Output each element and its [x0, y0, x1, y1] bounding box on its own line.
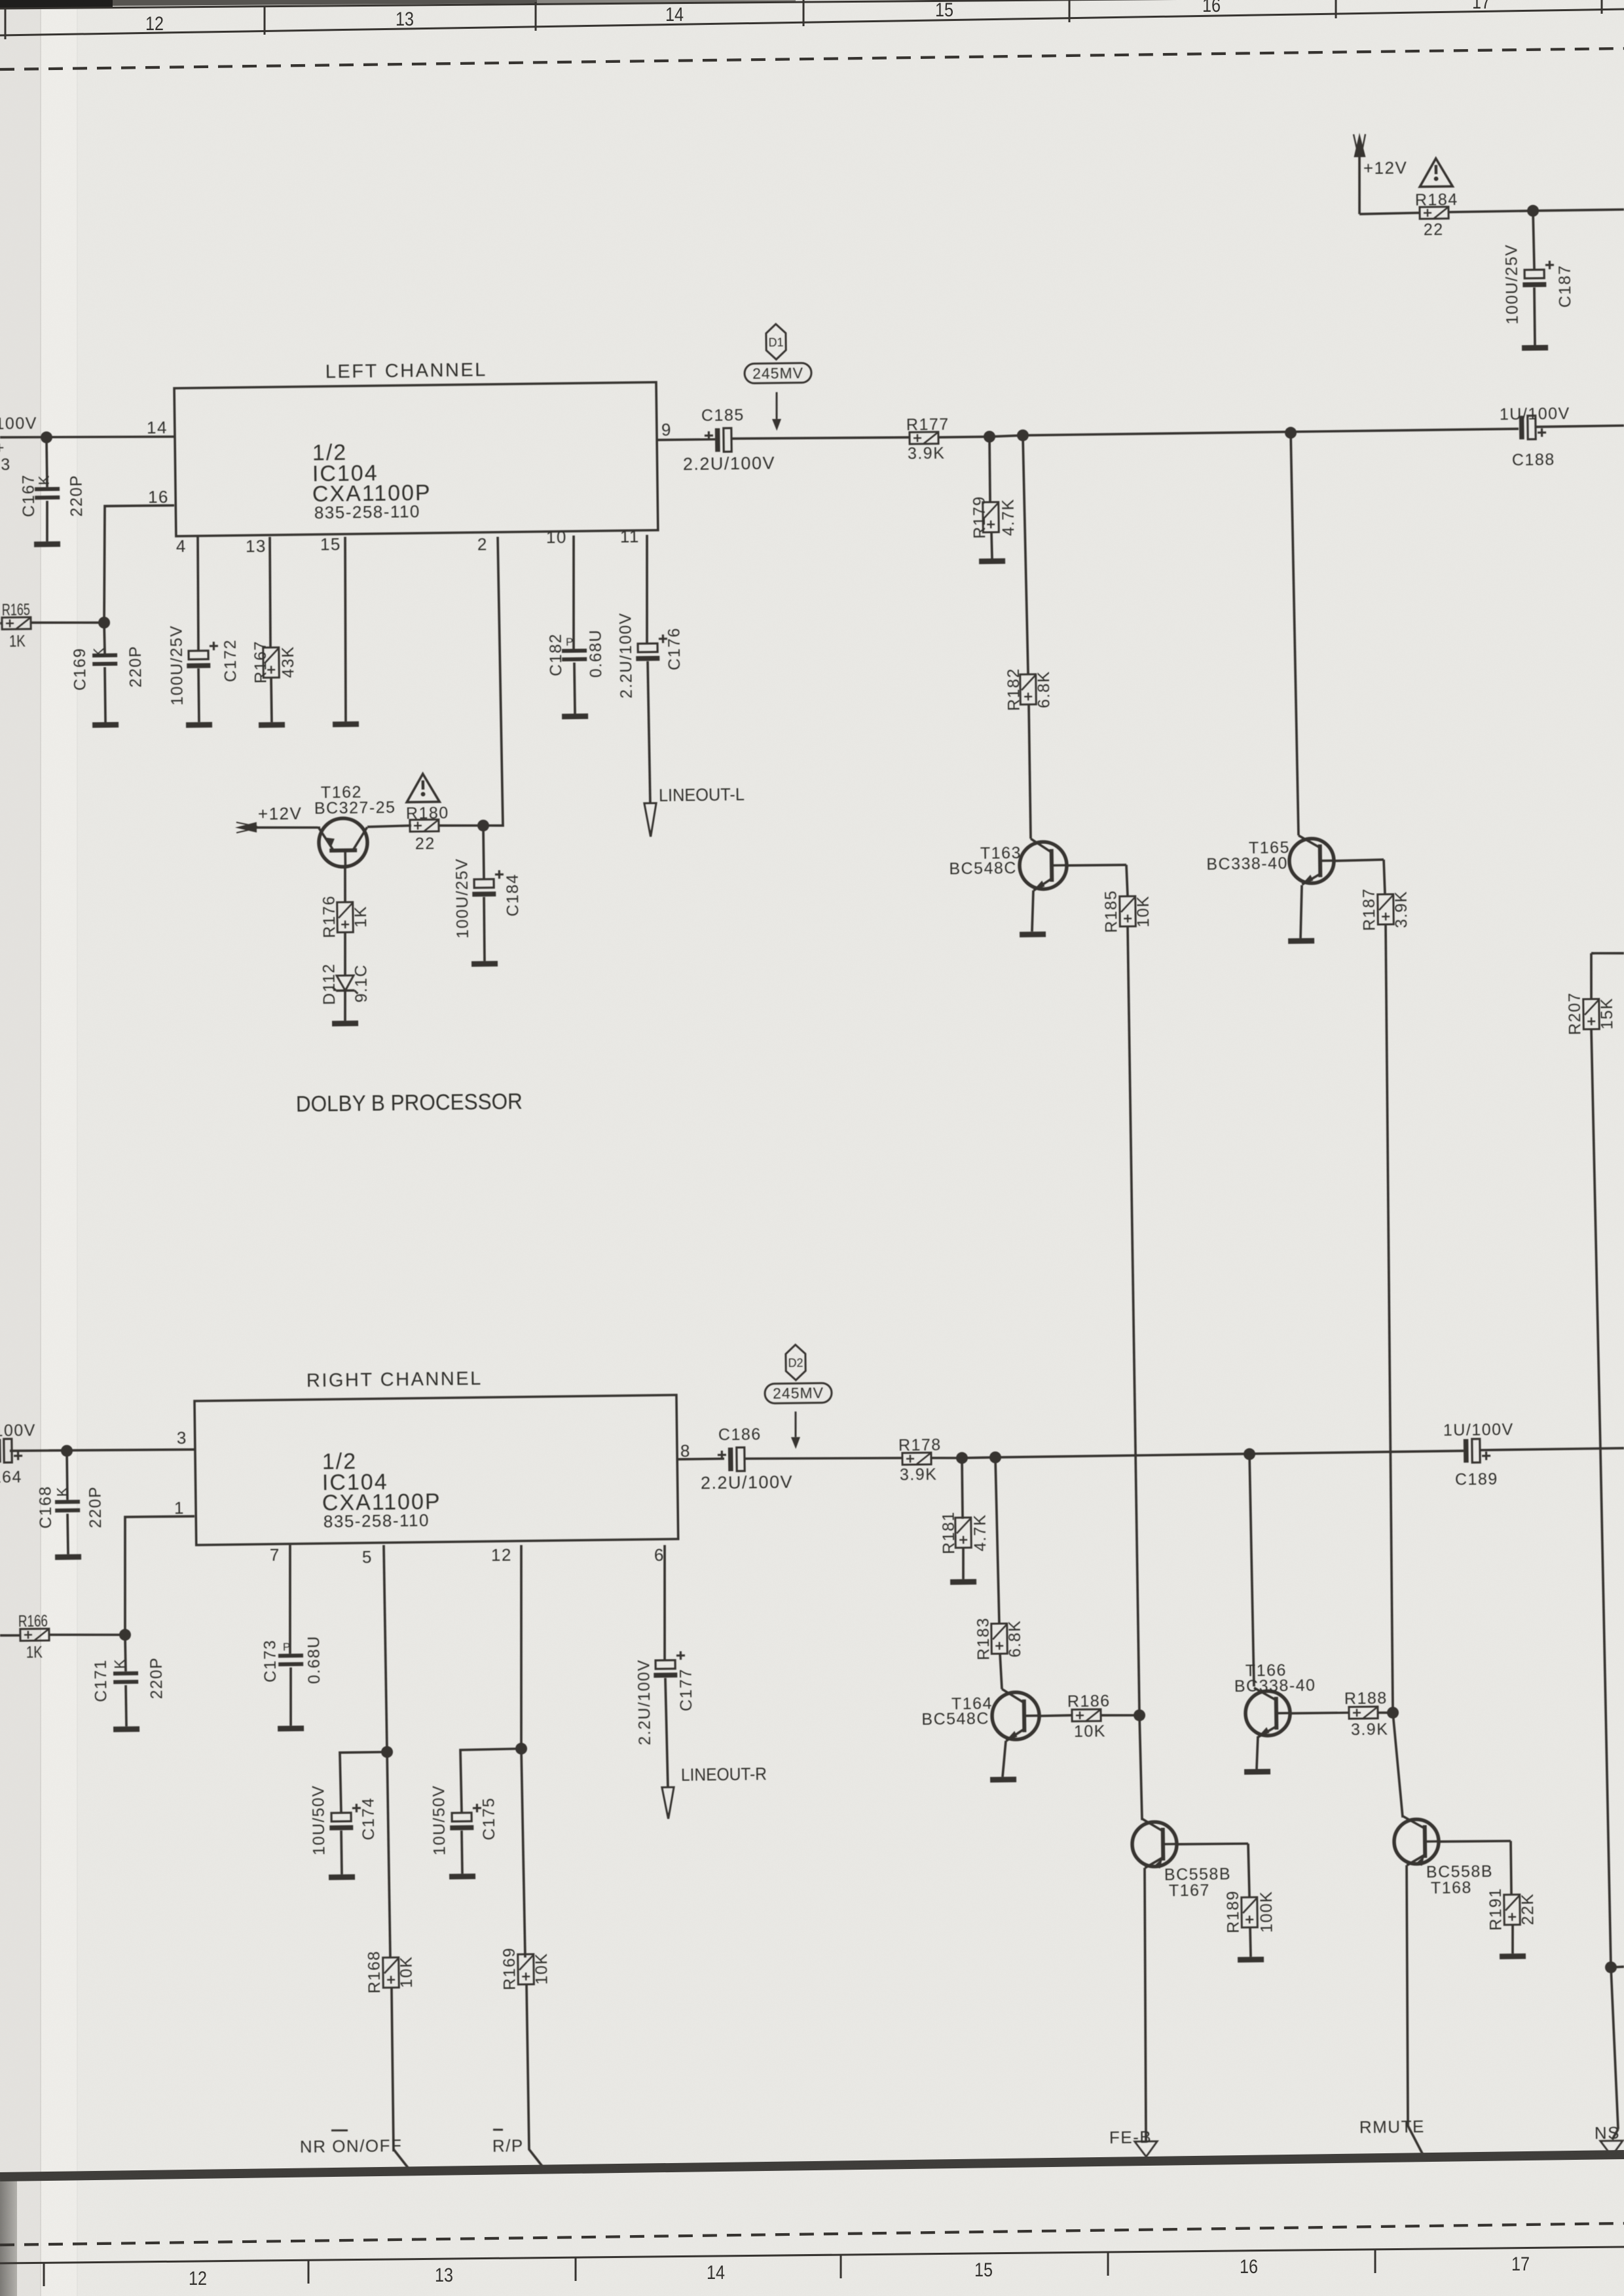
capacitor C182 0.68U — [562, 649, 587, 661]
page top dark scan edge — [0, 0, 537, 7]
net RMUTE — [1359, 2117, 1425, 2137]
resistor R185 10K — [1120, 896, 1136, 926]
ground R191 — [1500, 1954, 1526, 1959]
node T165 tap — [1285, 427, 1297, 439]
ground C175 — [449, 1874, 475, 1880]
label T166 — [1246, 1661, 1287, 1680]
label R182 6.8K — [1035, 670, 1054, 708]
wire C176 to lineout arrow — [648, 661, 650, 803]
top ruler tick — [5, 9, 7, 39]
ground C187 — [1522, 345, 1548, 351]
ground bus bar — [0, 2155, 1624, 2177]
pin 1 — [174, 1498, 185, 1518]
label R180 — [406, 804, 449, 823]
label R167 43K — [279, 646, 298, 678]
bottom ruler line — [0, 2247, 1624, 2263]
capacitor C167 220P — [35, 487, 60, 500]
wire C187 to ground — [1534, 287, 1535, 345]
wire D112 to ground — [344, 991, 345, 1021]
ground pin15 — [333, 721, 359, 727]
ground C182 — [562, 714, 588, 720]
label C187 100U/25V — [1502, 244, 1522, 325]
label R207 — [1566, 992, 1585, 1035]
wire R185 down FE-B line — [1128, 926, 1139, 1714]
wire C182 to ground — [574, 663, 575, 714]
top ruler tick — [1335, 0, 1337, 18]
wire pin1 to node — [124, 1516, 196, 1635]
pin 16 — [148, 487, 169, 507]
label T166 BC338-40 — [1234, 1676, 1316, 1696]
resistor R165 1K — [2, 617, 31, 630]
capacitor C186 2.2U/100V — [718, 1448, 745, 1472]
wire R165 to node — [31, 622, 104, 624]
bottom ruler tick — [1375, 2250, 1376, 2273]
wire pin11 to C176 — [646, 535, 648, 644]
wire C169 bottom lead — [105, 667, 105, 722]
label C177 2.2U/100V — [635, 1659, 654, 1745]
node NS stub — [1605, 1961, 1617, 1973]
wire node to R181 — [962, 1458, 963, 1519]
wire R176 to D112 — [344, 932, 346, 975]
node R183 tap — [989, 1451, 1001, 1463]
label R187 — [1360, 888, 1379, 931]
wire pin2 down to R180 node — [479, 537, 503, 826]
ground C168 — [55, 1554, 81, 1560]
resistor R189 100K — [1242, 1897, 1258, 1927]
node R166/C171 — [119, 1629, 131, 1641]
wire T166 base lead to R188 — [1290, 1713, 1349, 1713]
label T163 BC548C — [949, 859, 1017, 878]
label R180 22 — [415, 835, 435, 853]
pin 3 — [177, 1428, 187, 1448]
wire node down to T165 — [1291, 433, 1299, 835]
net LINEOUT-R — [681, 1764, 767, 1785]
wire C186 to R178 — [745, 1457, 903, 1460]
label R165 — [2, 600, 30, 619]
label C174 10U/50V — [309, 1785, 328, 1855]
pin 7 — [270, 1545, 280, 1565]
pin 9 — [661, 420, 672, 439]
label C172 — [221, 639, 240, 682]
wire T167 lead to R189 — [1177, 1844, 1248, 1845]
wire R180 to node — [439, 825, 483, 826]
wire T164 base lead to R186 — [1039, 1715, 1072, 1716]
capacitor C168 220P — [55, 1500, 80, 1512]
warning triangle (R184) — [1420, 158, 1453, 187]
label R169 10K — [532, 1952, 551, 1984]
label T167 — [1169, 1881, 1210, 1900]
resistor R181 4.7K — [955, 1518, 972, 1548]
label C174 — [360, 1797, 378, 1840]
ground D112 — [332, 1021, 358, 1027]
label R189 100K — [1257, 1891, 1276, 1933]
wire +12V to T162 — [256, 827, 320, 828]
pin 14 — [147, 418, 168, 437]
wire R167 to ground — [270, 678, 273, 722]
page top dark scan edge tail — [537, 0, 796, 3]
label T165 — [1249, 839, 1290, 858]
wire pin16 to node — [103, 505, 175, 623]
wire pin8 to C186 — [677, 1459, 724, 1459]
wire node down to T167 — [1139, 1715, 1142, 1820]
bottom ruler tick — [575, 2257, 577, 2281]
wire NS node to page edge — [1611, 1965, 1624, 1969]
page left highlight band — [41, 0, 77, 2296]
ground C167 — [34, 541, 60, 547]
transistor T168 BC558B — [1394, 1815, 1439, 1866]
wire node to page edge — [1533, 210, 1624, 211]
label R168 — [365, 1950, 384, 1994]
ground R167 — [259, 722, 285, 728]
resistor R188 3.9K — [1349, 1707, 1378, 1719]
wire C174 to ground — [340, 1831, 343, 1874]
D1 pointer arrowhead — [772, 419, 781, 431]
top ruler bottom line — [0, 9, 1624, 35]
wire pin9 to C185 — [656, 439, 715, 440]
transistor T163 BC548C — [1019, 838, 1067, 890]
wire T168 down to RMUTE bus — [1405, 1865, 1425, 2159]
label R178 3.9K — [900, 1465, 938, 1484]
label C185 — [701, 406, 745, 425]
wire pin15 to ground — [343, 537, 347, 721]
wire T162 to R180 — [367, 826, 411, 827]
label R166 1K — [26, 1643, 43, 1662]
label C171 220P — [147, 1657, 166, 1700]
wire node down to T168 — [1393, 1713, 1403, 1817]
wire R187 down RMUTE line — [1383, 924, 1395, 1714]
test node D1 hexagon — [766, 324, 786, 359]
lineout-R arrow — [662, 1787, 674, 1819]
pin 12 — [491, 1545, 512, 1565]
ground C174 — [329, 1874, 355, 1880]
label R166 — [18, 1612, 48, 1631]
resistor R168 10K — [383, 1958, 399, 1988]
label R207 15K — [1598, 997, 1617, 1029]
wire down to NS node — [1600, 1449, 1611, 1967]
resistor R182 6.8K — [1020, 674, 1037, 704]
ground R179 — [979, 558, 1005, 564]
pin 10 — [546, 527, 567, 547]
label T162 BC327-25 — [314, 798, 396, 818]
label R167 — [251, 640, 270, 683]
label R169 — [500, 1947, 519, 1990]
wire C171 bottom lead — [124, 1685, 128, 1726]
wire C177 to lineout arrow — [665, 1678, 668, 1787]
wire NS node down — [1611, 1967, 1618, 2129]
top ruler tick — [1069, 0, 1071, 22]
label C167 K — [35, 475, 52, 486]
page top-left black corner — [0, 0, 113, 8]
D2 pointer arrow stem — [794, 1412, 797, 1437]
pin 8 — [680, 1441, 691, 1461]
wire R207 down — [1591, 1029, 1600, 1449]
label C182 — [547, 633, 566, 676]
resistor R187 3.9K — [1378, 894, 1394, 924]
wire C188 to page edge — [1536, 426, 1624, 427]
pin 15 — [320, 534, 341, 554]
label C176 — [665, 627, 684, 670]
IC104R text IC104 — [322, 1470, 388, 1495]
pin 5 — [362, 1547, 373, 1567]
wire T166 emitter to ground — [1256, 1736, 1258, 1769]
node C175 — [515, 1743, 527, 1755]
label C182 P — [566, 636, 574, 648]
label R181 4.7K — [971, 1514, 990, 1552]
wire pin6 to C177 — [663, 1545, 666, 1660]
wire pin10 to C182 — [572, 536, 575, 649]
label C172 100U/25V — [167, 625, 187, 706]
wire left input to pin 14 — [0, 435, 174, 439]
label C175 — [480, 1797, 499, 1840]
overbar R — [493, 2128, 503, 2130]
label R184 — [1415, 191, 1458, 210]
wire T163 emitter to ground — [1031, 890, 1034, 932]
resistor R177 3.9K — [910, 432, 938, 445]
label R187 3.9K — [1392, 890, 1411, 928]
title RIGHT CHANNEL — [306, 1368, 483, 1391]
IC104 text IC104 — [312, 461, 378, 486]
wire T168 lead to R191 — [1439, 1841, 1511, 1842]
label C184 — [504, 873, 523, 917]
wire T167 down to FE-B — [1143, 1868, 1148, 2141]
wire R177 to node — [938, 435, 989, 439]
capacitor C175 10U/50V — [450, 1804, 481, 1831]
resistor R180 22 — [410, 820, 439, 832]
net NS — [1595, 2123, 1620, 2143]
bottom ruler tick — [840, 2255, 842, 2278]
label C163 fragment — [0, 456, 11, 474]
label C164 fragment — [0, 1468, 22, 1487]
ground T165 — [1288, 938, 1314, 944]
wire R178 to node — [931, 1457, 962, 1458]
net FE-B — [1109, 2127, 1153, 2147]
IC104R text 1/2 — [322, 1449, 358, 1474]
label R183 6.8K — [1006, 1620, 1025, 1658]
label R179 — [970, 496, 989, 539]
wire pin4 to C172 — [197, 537, 199, 651]
wire C168 bottom lead — [66, 1514, 69, 1554]
label C171 — [92, 1659, 111, 1702]
label C169 220P — [126, 646, 145, 688]
label T162 — [321, 783, 362, 802]
capacitor C184 100U/25V — [472, 870, 504, 897]
wire node to C184 — [483, 826, 484, 879]
wire to R207 — [1591, 953, 1592, 999]
wire C171 top lead — [125, 1635, 126, 1671]
top ruler tick — [535, 2, 537, 31]
transistor T165 BC338-40 — [1289, 835, 1334, 884]
capacitor C187 100U/25V — [1522, 261, 1554, 287]
label T167 BC558B — [1164, 1865, 1231, 1884]
ground R181 — [950, 1579, 976, 1585]
node R165/C169 — [98, 617, 110, 629]
label C182 0.68U — [587, 629, 606, 678]
pin 2 — [477, 534, 488, 554]
wire C173 to ground — [290, 1667, 291, 1726]
level label 245MV (D1) — [745, 363, 811, 383]
label C173 — [261, 1639, 280, 1683]
D1 pointer arrow stem — [776, 392, 777, 419]
label C176 2.2U/100V — [616, 612, 636, 699]
wire R165 left lead — [0, 622, 3, 625]
node C184/pin2 — [477, 820, 489, 831]
wire +12V down — [1359, 155, 1360, 214]
label C177 — [677, 1668, 696, 1711]
label R191 22K — [1519, 1893, 1538, 1925]
label D112 — [320, 963, 339, 1005]
level label 245MV (D2) — [765, 1383, 832, 1403]
label T168 BC558B — [1426, 1863, 1493, 1882]
IC104R text CXA1100P — [322, 1489, 441, 1516]
resistor R167 43K — [263, 647, 280, 678]
label R177 3.9K — [908, 444, 946, 463]
D2 pointer arrowhead — [791, 1437, 800, 1449]
wire node to node — [989, 435, 1023, 437]
overbar ON — [331, 2129, 348, 2132]
wire R183 to T164 — [1000, 1654, 1002, 1689]
wire main L line to C188 — [1023, 429, 1519, 435]
transistor T164 BC548C — [992, 1688, 1040, 1741]
capacitor C185 2.2U/100V — [705, 428, 731, 452]
wire C184 to ground — [484, 897, 485, 961]
label C186 — [718, 1425, 762, 1444]
label C168 K — [54, 1486, 70, 1497]
top ruler tick — [264, 7, 266, 35]
wire C185 to R177 — [731, 437, 910, 440]
label C163 + fragment — [0, 439, 5, 457]
pin 11 — [620, 526, 640, 546]
wire T162 base to R176 — [344, 867, 345, 903]
wire R182 to T163 — [1029, 704, 1031, 839]
ground C169 — [92, 722, 119, 728]
label C189 — [1455, 1470, 1498, 1489]
resistor R184 22 — [1420, 207, 1449, 219]
label C171 K — [111, 1658, 128, 1669]
node C174 — [381, 1746, 393, 1758]
label C189 1U/100V — [1443, 1421, 1514, 1440]
label R177 — [906, 415, 950, 434]
wire page edge to R207 — [1591, 953, 1624, 953]
wire node down to R169 — [521, 1749, 525, 1958]
NS bus entry arrow — [1600, 2141, 1623, 2156]
capacitor C174 10U/50V — [329, 1804, 361, 1831]
wire node down to T166 — [1249, 1454, 1254, 1686]
label C173 P — [283, 1641, 291, 1653]
label C173 0.68U — [305, 1635, 324, 1685]
wire pin12 down — [519, 1545, 524, 1749]
wire C175 to ground — [462, 1831, 462, 1874]
ground R189 — [1238, 1957, 1264, 1963]
warning triangle (R180) — [407, 774, 440, 803]
wire T165 emitter to ground — [1300, 885, 1302, 938]
wire node down to R183 — [995, 1457, 999, 1624]
wire R188 to RMUTE node — [1378, 1711, 1393, 1714]
label R178 — [898, 1436, 942, 1455]
node R182 tap — [1017, 429, 1029, 441]
node T166 tap — [1244, 1448, 1255, 1460]
top ruler top line — [0, 0, 1624, 9]
resistor R179 4.7K — [983, 502, 999, 532]
bottom ruler tick — [308, 2260, 310, 2284]
net R/P — [492, 2136, 524, 2156]
net LINEOUT-L — [659, 784, 745, 805]
wire pin5 down — [384, 1545, 387, 1752]
label C169 K — [90, 647, 107, 658]
label C184 100U/25V — [452, 858, 472, 939]
wire main R line to C189 — [995, 1451, 1464, 1457]
wire R186 to FE-B node — [1101, 1715, 1139, 1715]
label C167 220P — [67, 475, 86, 517]
wire R179 to ground — [991, 532, 992, 558]
label R181 — [940, 1511, 959, 1554]
wire node to C175 — [460, 1749, 522, 1813]
label C188 — [1512, 450, 1555, 469]
resistor R169 10K — [518, 1954, 534, 1984]
node pin3/C168 — [61, 1445, 73, 1457]
title LEFT CHANNEL — [325, 359, 487, 382]
wire T164 emitter to ground — [1002, 1741, 1006, 1777]
wire R169 to bus R/P — [526, 1984, 545, 2171]
wire R168 to bus NR ON/OFF — [392, 1988, 411, 2172]
page left seam — [40, 0, 41, 2296]
wire R166 left lead — [0, 1634, 20, 1637]
wire T163 base lead to R185 — [1067, 865, 1126, 866]
node FE-B/T167 — [1134, 1709, 1145, 1721]
wire pin13 to R167 — [269, 537, 271, 647]
node C187 — [1527, 205, 1539, 217]
label R165 1K — [9, 632, 26, 651]
wire C167 bottom lead — [46, 501, 48, 541]
ground C172 — [186, 722, 212, 728]
label T168 — [1431, 1878, 1472, 1897]
capacitor C173 0.68U — [278, 1654, 303, 1666]
top ruler tick — [1601, 0, 1603, 14]
label C163 00V fragment — [0, 414, 37, 434]
label R182 — [1005, 668, 1024, 711]
wire NS bend — [1612, 2129, 1618, 2140]
wire R166 to node — [49, 1634, 125, 1636]
lineout-L arrow — [644, 803, 657, 837]
title DOLBY B PROCESSOR — [296, 1089, 523, 1117]
label C167 — [20, 474, 39, 517]
wire to R189 — [1248, 1844, 1249, 1897]
capacitor C176 2.2U/100V — [636, 634, 667, 661]
wire node to R179 — [989, 437, 990, 503]
top dashed border — [0, 48, 1624, 69]
label R183 — [974, 1617, 993, 1660]
wire pin7 to C173 — [289, 1545, 291, 1654]
resistor R191 22K — [1504, 1895, 1521, 1925]
page left edge band — [0, 0, 41, 2296]
label R188 3.9K — [1351, 1720, 1389, 1739]
transistor T166 BC338-40 — [1246, 1687, 1291, 1737]
wire T165 base lead to R187 — [1334, 860, 1384, 861]
label R186 10K — [1074, 1722, 1106, 1741]
capacitor C171 220P — [113, 1671, 138, 1684]
ground T164 — [990, 1777, 1016, 1783]
label C169 — [71, 647, 90, 691]
transistor T162 BC327-25 — [319, 818, 368, 867]
wire node to C187 — [1533, 211, 1534, 270]
net NR ON/OFF — [300, 2136, 403, 2157]
FE-B bus entry arrow — [1135, 2141, 1157, 2157]
wire left input to pin 3 — [10, 1448, 194, 1451]
wire C169 top lead — [103, 623, 106, 653]
node RMUTE/T168 — [1387, 1707, 1399, 1719]
resistor R186 10K — [1072, 1709, 1101, 1722]
resistor R183 6.8K — [991, 1624, 1008, 1654]
capacitor C189 1U/100V — [1464, 1439, 1490, 1463]
